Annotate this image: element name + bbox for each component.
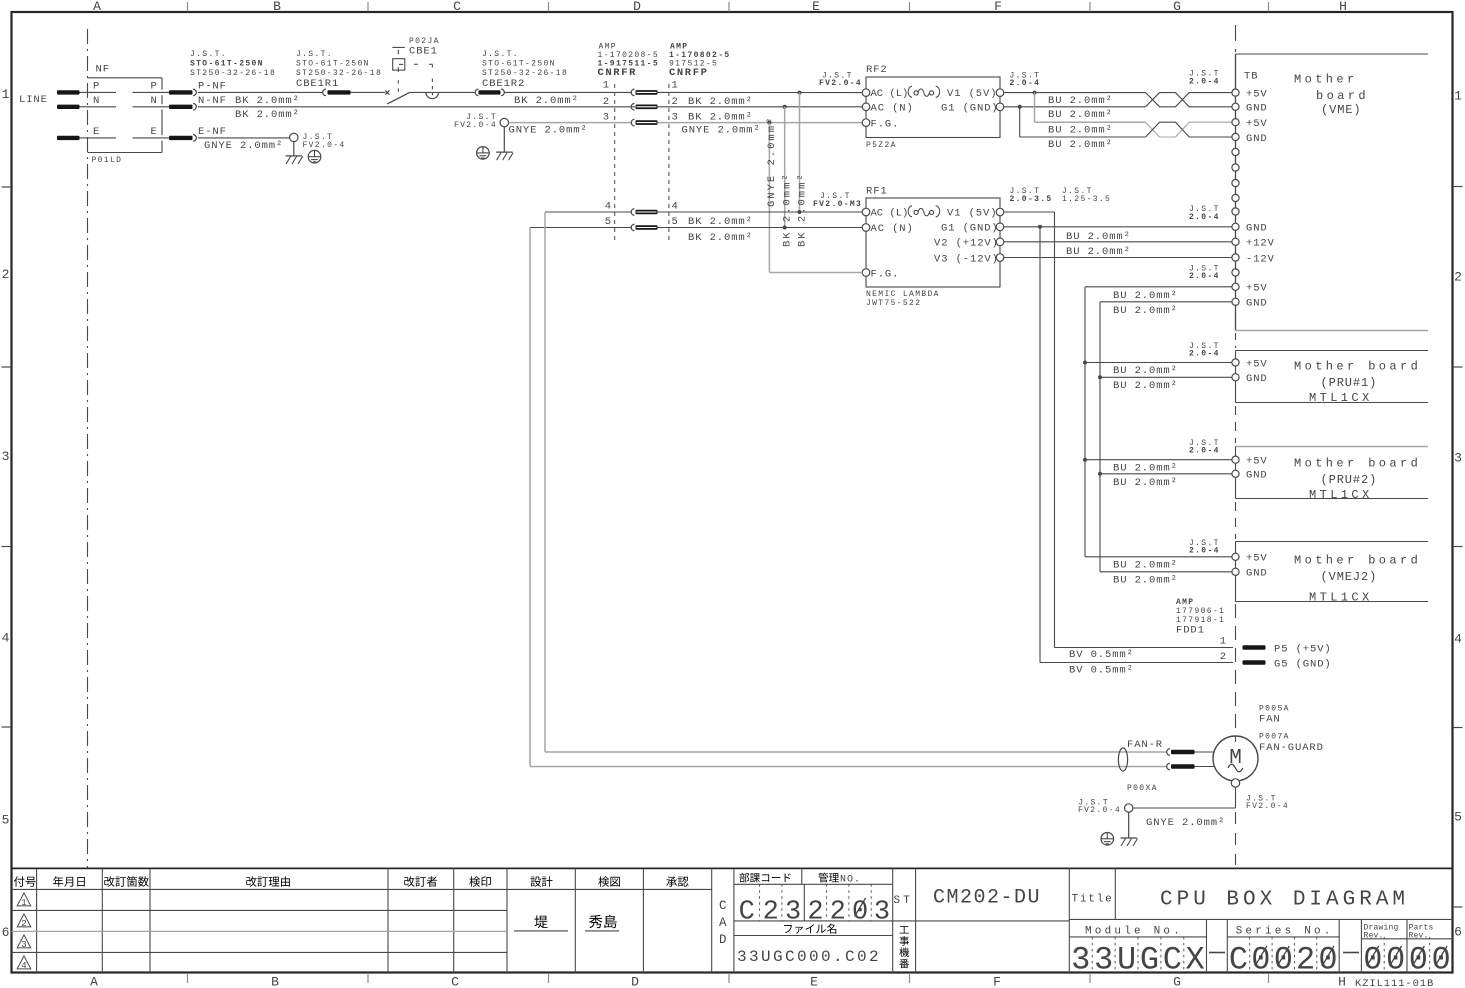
svg-text:A: A: [719, 916, 727, 930]
svg-text:3: 3: [21, 940, 26, 950]
mother board PRU#2 MTL1CX: [1189, 406, 1428, 502]
svg-text:STO-61T-250N: STO-61T-250N: [482, 60, 556, 69]
svg-text:BU 2.0mm²: BU 2.0mm²: [1048, 95, 1113, 107]
svg-text:N: N: [151, 95, 158, 107]
svg-text:G: G: [1173, 0, 1181, 14]
svg-text:BK 2.0mm²: BK 2.0mm²: [688, 216, 753, 228]
svg-text:5: 5: [1454, 810, 1462, 825]
svg-text:C: C: [1163, 942, 1182, 979]
svg-text:BK 2.0mm²: BK 2.0mm²: [688, 96, 753, 108]
svg-text:2.0-4: 2.0-4: [1189, 447, 1220, 456]
svg-text:0: 0: [1363, 942, 1382, 979]
svg-text:0: 0: [852, 898, 868, 928]
svg-text:Module No.: Module No.: [1085, 926, 1183, 938]
svg-text:CBE1R2: CBE1R2: [482, 78, 525, 90]
svg-text:CNRFR: CNRFR: [598, 67, 638, 79]
svg-text:(VME): (VME): [1321, 103, 1362, 117]
connector CBE1R2 crimp: [475, 89, 632, 107]
svg-text:STO-61T-250N: STO-61T-250N: [190, 60, 264, 69]
pin 2 CNRFR/CNRFP: [603, 96, 753, 110]
svg-text:1: 1: [672, 80, 679, 92]
svg-text:-12V: -12V: [1246, 253, 1275, 265]
svg-text:MTL1CX: MTL1CX: [1309, 590, 1373, 604]
svg-text:2: 2: [807, 898, 823, 928]
+5V rail to boards: [1085, 265, 1268, 557]
drawing number KZIL111-01B: [1355, 978, 1434, 988]
checker name Hideshima: [585, 915, 619, 931]
department code cell: [734, 868, 1069, 921]
svg-text:X: X: [1186, 942, 1205, 979]
svg-text:2.0-4: 2.0-4: [1189, 350, 1220, 359]
TB labels: [1246, 88, 1268, 144]
wire fan feeder 2: [530, 228, 1167, 767]
svg-text:2.0-4: 2.0-4: [1189, 546, 1220, 555]
ST cell: [893, 868, 916, 972]
svg-text:JWT75-522: JWT75-522: [866, 299, 921, 308]
breaker CBE1 P02JA: [392, 37, 439, 95]
svg-text:ST250-32-26-18: ST250-32-26-18: [190, 69, 276, 78]
svg-text:1: 1: [1454, 89, 1462, 104]
connector CBE1R1 crimp: [323, 89, 386, 96]
svg-text:FV2.0-4: FV2.0-4: [819, 79, 862, 88]
svg-text:4: 4: [605, 201, 612, 213]
svg-text:FDD1: FDD1: [1176, 625, 1205, 637]
svg-text:+5V: +5V: [1246, 283, 1268, 295]
svg-text:D: D: [631, 975, 639, 988]
svg-text:G5 (GND): G5 (GND): [1274, 659, 1332, 671]
svg-text:CNRFP: CNRFP: [669, 67, 709, 79]
module number 33UGCX-C0020-0000: [1071, 937, 1451, 979]
wire FDD pin2 G5: [1040, 651, 1332, 677]
svg-text:C: C: [451, 975, 459, 988]
svg-text:MTL1CX: MTL1CX: [1309, 488, 1373, 502]
svg-text:GND: GND: [1246, 298, 1268, 310]
title block: [12, 868, 1453, 972]
svg-text:3: 3: [1094, 942, 1113, 979]
unit boundary chain line (left): [87, 29, 89, 868]
svg-text:C: C: [453, 0, 461, 14]
wire RF1 V3 -12V: [1004, 257, 1232, 259]
svg-text:BK 2.0mm²: BK 2.0mm²: [688, 111, 753, 123]
svg-text:GNYE 2.0mm²: GNYE 2.0mm²: [766, 116, 778, 207]
svg-text:Rev.: Rev.: [1364, 931, 1384, 940]
svg-text:2: 2: [2, 267, 10, 282]
svg-text:GNYE 2.0mm²: GNYE 2.0mm²: [509, 125, 588, 137]
svg-text:BU 2.0mm²: BU 2.0mm²: [1113, 380, 1178, 392]
svg-text:D: D: [719, 933, 727, 947]
svg-text:4: 4: [2, 631, 10, 646]
module no cell: [1069, 919, 1452, 972]
svg-text:E: E: [810, 975, 818, 988]
unit boundary chain line (right, TB side top stub): [1235, 25, 1237, 52]
svg-text:+5V: +5V: [1246, 118, 1268, 130]
svg-text:BU 2.0mm²: BU 2.0mm²: [1066, 231, 1131, 243]
wire VMEJ2 +5V: [1085, 557, 1232, 572]
svg-text:M: M: [1229, 747, 1242, 770]
connector CNRFP column: [668, 84, 670, 240]
wire PRU2 +5V: [1083, 458, 1232, 475]
svg-text:TB: TB: [1244, 71, 1258, 83]
svg-text:BK 2.0mm²: BK 2.0mm²: [235, 95, 300, 107]
svg-text:P5 (+5V): P5 (+5V): [1274, 644, 1332, 656]
svg-text:AC (N): AC (N): [871, 102, 914, 114]
svg-text:4: 4: [1454, 632, 1462, 647]
ground fan ring terminal J.S.T FV2.0-4: [1078, 799, 1138, 847]
svg-text:A: A: [93, 0, 101, 14]
svg-text:33UGC000.C02: 33UGC000.C02: [737, 948, 881, 966]
svg-text:E: E: [151, 126, 158, 138]
svg-text:Title: Title: [1072, 894, 1114, 906]
svg-text:AC (L): AC (L): [871, 88, 909, 100]
svg-text:1: 1: [1220, 636, 1227, 648]
svg-text:BK 2.0mm²: BK 2.0mm²: [235, 109, 300, 121]
svg-text:(VMEJ2): (VMEJ2): [1321, 570, 1378, 584]
connector CBE1R1 label: [296, 50, 382, 90]
svg-text:2.0-3.5: 2.0-3.5: [1010, 195, 1053, 204]
svg-text:2.0-4: 2.0-4: [1189, 213, 1220, 222]
svg-text:BK 2.0mm²: BK 2.0mm²: [782, 172, 794, 247]
connector label J.S.T STO-61T-250N (NF side): [190, 50, 276, 78]
wire RF1 FG link: [769, 272, 862, 274]
connector CNRFR label AMP: [598, 42, 660, 79]
wire E-NF: [198, 126, 290, 152]
svg-text:2: 2: [1296, 942, 1315, 979]
wire BK link vertical 2: [796, 93, 808, 247]
svg-text:3: 3: [874, 898, 890, 928]
wire pin4 to RF1 AC L: [545, 210, 862, 214]
mother board VME: [1236, 54, 1429, 331]
svg-text:2: 2: [1454, 270, 1462, 285]
management number C232203: [739, 898, 890, 928]
svg-text:2: 2: [763, 898, 779, 928]
svg-text:3: 3: [785, 898, 801, 928]
revision triangles: [17, 893, 31, 971]
svg-text:+12V: +12V: [1246, 238, 1275, 250]
wire AC N to RF2: [658, 105, 863, 109]
svg-text:+5V: +5V: [1246, 553, 1268, 565]
svg-text:B: B: [273, 0, 281, 14]
svg-text:0: 0: [1274, 942, 1293, 979]
svg-text:V1 (5V): V1 (5V): [947, 208, 997, 220]
svg-text:1: 1: [603, 80, 610, 92]
file name cell: [734, 924, 893, 966]
svg-text:D: D: [633, 0, 641, 14]
TB terminals: [1232, 89, 1239, 305]
svg-text:2.0-4: 2.0-4: [1189, 272, 1220, 281]
pin 4 CNRFR/CNRFP: [605, 201, 679, 216]
svg-text:BU 2.0mm²: BU 2.0mm²: [1113, 477, 1178, 489]
wire VMEJ2 GND: [1100, 572, 1232, 587]
svg-text:NO.: NO.: [840, 875, 861, 886]
svg-text:2: 2: [672, 96, 679, 108]
svg-text:KZIL111-01B: KZIL111-01B: [1355, 978, 1434, 988]
svg-text:ST: ST: [894, 895, 914, 907]
ground GNYE ring terminal J.S.T FV2.0-4: [454, 113, 632, 160]
svg-text:2: 2: [1220, 651, 1227, 663]
svg-text:FV2.0-4: FV2.0-4: [1078, 806, 1121, 815]
svg-text:CBE1: CBE1: [409, 46, 438, 58]
power supply RF2 P5Z2A: [819, 64, 1040, 150]
svg-text:0: 0: [1409, 942, 1428, 979]
svg-text:F: F: [993, 975, 1001, 988]
wire RF1 V1 to FDD: [1004, 212, 1055, 648]
svg-text:BU 2.0mm²: BU 2.0mm²: [1048, 109, 1113, 121]
wire N-NF: [198, 95, 635, 121]
svg-text:ST250-32-26-18: ST250-32-26-18: [296, 69, 382, 78]
svg-text:F.G.: F.G.: [871, 268, 900, 280]
svg-text:P5Z2A: P5Z2A: [866, 141, 897, 150]
svg-text:+5V: +5V: [1246, 456, 1268, 468]
svg-text:Mother: Mother: [1294, 73, 1358, 87]
svg-text:FAN: FAN: [1259, 714, 1281, 726]
TB labels 12V group: [1189, 205, 1275, 265]
svg-text:V3 (-12V): V3 (-12V): [934, 253, 999, 265]
svg-text:2.0-4: 2.0-4: [1189, 77, 1220, 86]
svg-text:MTL1CX: MTL1CX: [1309, 391, 1373, 405]
svg-text:(PRU#1): (PRU#1): [1321, 376, 1378, 390]
svg-text:B: B: [271, 975, 279, 988]
svg-text:P-NF: P-NF: [198, 81, 227, 93]
svg-text:3: 3: [1071, 942, 1090, 979]
wire fan feeder 1: [545, 212, 1167, 752]
svg-text:ST250-32-26-18: ST250-32-26-18: [482, 69, 568, 78]
svg-text:0: 0: [1318, 942, 1337, 979]
wire PRU1 +5V: [1083, 361, 1232, 378]
svg-text:J.S.T.: J.S.T.: [190, 50, 227, 59]
svg-text:2: 2: [21, 919, 26, 929]
title block headers japanese: [14, 876, 689, 887]
svg-text:0: 0: [1386, 942, 1405, 979]
svg-text:CM202-DU: CM202-DU: [933, 887, 1041, 910]
svg-text:BV 0.5mm²: BV 0.5mm²: [1069, 649, 1134, 661]
svg-text:P: P: [93, 81, 100, 93]
svg-text:(PRU#2): (PRU#2): [1321, 473, 1378, 487]
svg-text:AC (N): AC (N): [871, 223, 914, 235]
svg-text:+5V: +5V: [1246, 358, 1268, 370]
connector FAN-R P00XA: [1118, 739, 1215, 793]
svg-text:G1 (GND): G1 (GND): [941, 102, 999, 114]
svg-text:BK 2.0mm²: BK 2.0mm²: [796, 172, 808, 247]
wire RF2 V1 +5V pair: [1004, 91, 1146, 107]
svg-text:FAN-GUARD: FAN-GUARD: [1259, 742, 1324, 754]
svg-text:1: 1: [21, 898, 26, 908]
svg-text:BU 2.0mm²: BU 2.0mm²: [1113, 305, 1178, 317]
wire pin5 to RF1 AC N: [530, 226, 862, 230]
svg-text:FAN-R: FAN-R: [1127, 739, 1163, 751]
mother board PRU#1 MTL1CX: [1189, 333, 1428, 405]
svg-text:GNYE 2.0mm²: GNYE 2.0mm²: [682, 125, 761, 137]
wire +5V branch: [1035, 93, 1146, 137]
svg-text:5: 5: [2, 813, 10, 828]
wire RF2 G1 GND pair: [1004, 105, 1146, 121]
svg-text:AMP: AMP: [1176, 598, 1194, 607]
wire GNYE to RF2 FG: [658, 121, 863, 137]
svg-text:BU 2.0mm²: BU 2.0mm²: [1113, 560, 1178, 572]
svg-text:GND: GND: [1246, 223, 1268, 235]
wire FDD pin1 P5: [1055, 636, 1332, 662]
svg-text:BU 2.0mm²: BU 2.0mm²: [1048, 139, 1113, 151]
svg-text:GND: GND: [1246, 373, 1268, 385]
twisted pair 1: [1146, 93, 1232, 107]
svg-text:E: E: [93, 126, 100, 138]
svg-text:C: C: [1229, 942, 1248, 979]
pin 5 CNRFR/CNRFP: [605, 216, 753, 244]
svg-text:1.25-3.5: 1.25-3.5: [1062, 195, 1111, 204]
svg-text:E-NF: E-NF: [198, 126, 227, 138]
svg-text:6: 6: [1454, 925, 1462, 940]
wire AC L to RF2: [658, 91, 863, 95]
wire PRU2 GND: [1098, 472, 1232, 489]
svg-text:N-NF: N-NF: [198, 95, 227, 107]
svg-text:+5V: +5V: [1246, 88, 1268, 100]
svg-text:GNYE 2.0mm²: GNYE 2.0mm²: [204, 140, 283, 152]
noise filter NF P01LD: [88, 64, 197, 166]
svg-text:Series No.: Series No.: [1236, 926, 1334, 938]
svg-text:GND: GND: [1246, 103, 1268, 115]
svg-text:3: 3: [2, 449, 10, 464]
svg-text:F.G.: F.G.: [871, 118, 900, 130]
svg-text:Rev.: Rev.: [1409, 931, 1429, 940]
svg-text:Mother board: Mother board: [1294, 554, 1421, 568]
svg-text:RF1: RF1: [866, 186, 888, 198]
pin 1 CNRFR/CNRFP: [603, 80, 679, 96]
pin 3 CNRFR/CNRFP: [603, 111, 753, 126]
wire P-NF: [198, 81, 323, 107]
svg-text:2.0-4: 2.0-4: [1010, 79, 1041, 88]
boundary dashes at fan: [1235, 812, 1237, 865]
svg-text:BV 0.5mm²: BV 0.5mm²: [1069, 664, 1134, 676]
svg-text:F: F: [994, 0, 1002, 14]
connector CNRFR column: [614, 84, 616, 240]
boundary dashes below VMEJ2: [1235, 604, 1237, 742]
svg-text:BU 2.0mm²: BU 2.0mm²: [1113, 462, 1178, 474]
svg-text:3: 3: [1454, 451, 1462, 466]
svg-text:CPU BOX DIAGRAM: CPU BOX DIAGRAM: [1160, 889, 1409, 912]
svg-text:P01LD: P01LD: [92, 156, 123, 165]
svg-text:Mother board: Mother board: [1294, 360, 1421, 374]
svg-text:6: 6: [2, 925, 10, 940]
svg-text:GND: GND: [1246, 133, 1268, 145]
svg-text:GNYE 2.0mm²: GNYE 2.0mm²: [1146, 817, 1225, 829]
svg-text:Mother board: Mother board: [1294, 457, 1421, 471]
fan motor P005A FAN P007A FAN-GUARD: [1213, 705, 1324, 788]
svg-text:4: 4: [21, 961, 26, 971]
wire GND branch: [1020, 107, 1146, 151]
breaker contact dip: [410, 92, 475, 98]
svg-text:C: C: [719, 899, 727, 913]
wire fan FG GNYE: [1133, 787, 1289, 829]
svg-text:LINE: LINE: [19, 94, 48, 106]
svg-text:NEMIC LAMBDA: NEMIC LAMBDA: [866, 290, 940, 299]
svg-text:board: board: [1316, 89, 1369, 103]
svg-text:3: 3: [603, 111, 610, 123]
wire RF1 V2 +12V: [1004, 242, 1232, 258]
svg-text:2: 2: [603, 96, 610, 108]
svg-text:0: 0: [1251, 942, 1270, 979]
wire RF1 G1 GND: [1004, 225, 1232, 663]
svg-text:BU 2.0mm²: BU 2.0mm²: [1066, 246, 1131, 258]
svg-text:FV2.0-M3: FV2.0-M3: [813, 200, 862, 209]
svg-text:AC (L): AC (L): [871, 208, 909, 220]
svg-text:BU 2.0mm²: BU 2.0mm²: [1113, 575, 1178, 587]
switch contact x-mark: [385, 90, 389, 94]
svg-text:BU 2.0mm²: BU 2.0mm²: [1113, 290, 1178, 302]
svg-text:BU 2.0mm²: BU 2.0mm²: [1113, 365, 1178, 377]
svg-text:A: A: [90, 975, 98, 988]
svg-text:0: 0: [1431, 942, 1450, 979]
svg-text:J.S.T.: J.S.T.: [482, 50, 519, 59]
CAD column: [719, 899, 727, 947]
svg-text:U: U: [1117, 942, 1136, 979]
svg-text:5: 5: [672, 216, 679, 228]
connector FDD1 AMP: [1176, 598, 1225, 637]
svg-text:177906-1: 177906-1: [1176, 607, 1225, 616]
svg-text:BK 2.0mm²: BK 2.0mm²: [514, 95, 579, 107]
svg-text:E: E: [812, 0, 820, 14]
svg-text:P: P: [151, 81, 158, 93]
wire GNYE link vertical: [766, 116, 778, 273]
wire PRU1 GND: [1098, 375, 1232, 392]
svg-text:C: C: [739, 898, 755, 928]
svg-text:FV2.0-4: FV2.0-4: [454, 121, 497, 130]
svg-text:STO-61T-250N: STO-61T-250N: [296, 60, 370, 69]
svg-text:4: 4: [672, 201, 679, 213]
svg-text:CBE1R1: CBE1R1: [296, 78, 339, 90]
svg-text:GND: GND: [1246, 470, 1268, 482]
svg-text:BK 2.0mm²: BK 2.0mm²: [688, 232, 753, 244]
svg-text:V2 (+12V): V2 (+12V): [934, 238, 999, 250]
GND rail to boards: [1100, 298, 1268, 572]
svg-text:G: G: [1140, 942, 1159, 979]
twisted pair 2: [1146, 122, 1232, 137]
svg-text:FV2.0-4: FV2.0-4: [303, 141, 346, 150]
connector CNRFP label AMP: [669, 42, 731, 79]
svg-text:3: 3: [672, 111, 679, 123]
svg-text:RF2: RF2: [866, 64, 888, 76]
svg-text:5: 5: [605, 216, 612, 228]
svg-text:V1 (5V): V1 (5V): [947, 88, 997, 100]
designer name Tsutsumi: [514, 915, 568, 930]
power supply RF1 NEMIC LAMBDA JWT75-522: [813, 186, 1111, 309]
svg-text:NF: NF: [96, 64, 110, 76]
svg-text:FV2.0-4: FV2.0-4: [1246, 802, 1289, 811]
svg-text:P00XA: P00XA: [1127, 784, 1158, 793]
svg-text:2: 2: [830, 898, 846, 928]
svg-text:1: 1: [2, 87, 10, 102]
svg-text:P005A: P005A: [1259, 705, 1290, 714]
svg-text:P007A: P007A: [1259, 733, 1290, 742]
svg-text:N: N: [93, 95, 100, 107]
svg-text:GND: GND: [1246, 568, 1268, 580]
ground E-NF ring terminal J.S.T FV2.0-4: [286, 133, 346, 164]
model CM202-DU: [933, 868, 1069, 972]
svg-text:G1 (GND): G1 (GND): [941, 223, 999, 235]
svg-text:BU 2.0mm²: BU 2.0mm²: [1048, 124, 1113, 136]
wire BK link vertical 1: [782, 107, 794, 247]
title CPU BOX DIAGRAM: [1069, 868, 1452, 919]
switch blade CBE1: [387, 92, 410, 104]
terminal strip TB: [1189, 54, 1258, 331]
connector CBE1R2 label: [482, 50, 568, 90]
svg-text:H: H: [1339, 0, 1347, 14]
mother board VMEJ2 MTL1CX: [1189, 502, 1428, 604]
svg-text:J.S.T.: J.S.T.: [296, 50, 333, 59]
svg-text:H: H: [1338, 975, 1346, 988]
node LINE input terminals: [19, 90, 88, 140]
